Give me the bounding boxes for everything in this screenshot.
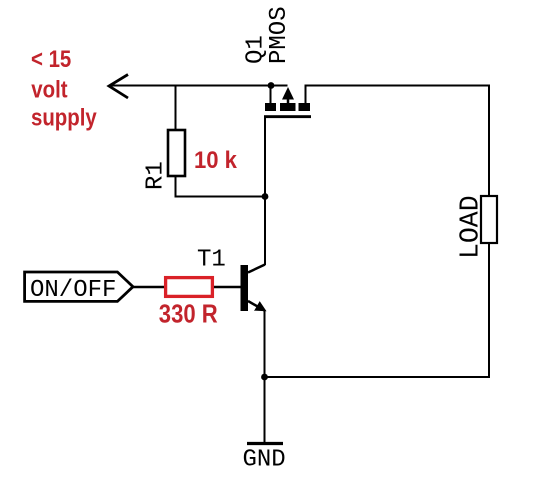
transistor T1: [241, 265, 267, 312]
wire bottom to load: [265, 243, 490, 377]
wire collector up: [264, 197, 266, 265]
supply arrow: [109, 75, 128, 99]
wire drain up and right: [306, 86, 490, 197]
svg-text:volt: volt: [31, 76, 68, 103]
resistor LOAD: [481, 196, 497, 243]
wire R1 bottom to gate node: [176, 176, 266, 197]
svg-text:PMOS: PMOS: [266, 6, 293, 64]
node ON/OFF flag: [25, 272, 133, 301]
svg-text:LOAD: LOAD: [455, 195, 485, 259]
svg-text:GND: GND: [243, 447, 286, 474]
svg-text:T1: T1: [197, 247, 226, 274]
svg-text:supply: supply: [31, 104, 97, 131]
resistor 330R: [166, 278, 213, 297]
transistor Q1 PMOS: [264, 87, 311, 118]
node emitter junction: [261, 374, 268, 381]
svg-text:330 R: 330 R: [159, 300, 218, 329]
wire emitter down: [264, 311, 266, 443]
node gate junction: [262, 193, 269, 200]
ground: [247, 442, 283, 445]
wire R1 branch top: [175, 86, 177, 131]
svg-text:R1: R1: [143, 161, 170, 190]
svg-text:ON/OFF: ON/OFF: [30, 277, 116, 304]
wire supply rail: [109, 85, 288, 87]
node supply-source junction: [268, 82, 275, 89]
wire resistor to base: [214, 286, 241, 288]
wire flag to resistor: [133, 286, 164, 288]
wire source drop: [270, 86, 272, 104]
svg-text:10 k: 10 k: [194, 146, 237, 173]
resistor R1: [168, 130, 185, 176]
wire gate vertical: [264, 118, 266, 265]
svg-text:< 15: < 15: [31, 46, 71, 73]
